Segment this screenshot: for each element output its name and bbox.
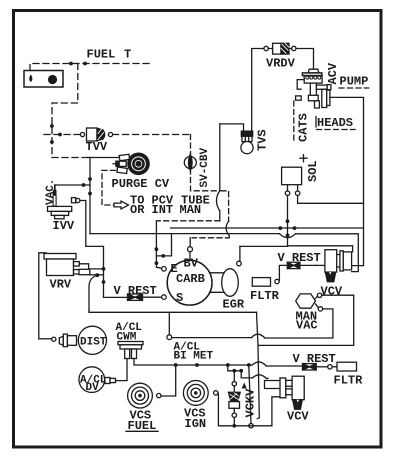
label VCKV vertical: [243, 388, 257, 418]
svg-text:CATS: CATS: [297, 113, 311, 142]
wire line A side branch down to bottom bus: [249, 365, 251, 424]
wire VCS IGN to bottom bus: [218, 393, 280, 428]
valve TVV: [44, 128, 191, 141]
svg-text:S: S: [176, 291, 183, 305]
svg-text:IVV: IVV: [53, 219, 75, 233]
solenoid SOL: [282, 155, 307, 196]
label IVV: [53, 219, 75, 233]
svg-text:OR: OR: [130, 203, 145, 217]
label A/CL CWM: [116, 322, 143, 344]
svg-text:FUEL: FUEL: [87, 48, 116, 62]
wire fuel tank dashed top run: [30, 62, 150, 71]
manifold vacuum source MAN VAC: [296, 293, 323, 311]
cold weather modulator A/CL CWM: [118, 342, 143, 359]
svg-text:ACV: ACV: [326, 62, 340, 84]
wire long manifold line y312: [89, 311, 257, 313]
wire VRDV right to ACV: [296, 49, 314, 70]
wire vertical manifold branch x90: [88, 158, 92, 234]
wire bus2 y234: [90, 234, 358, 272]
label HEADS with dashed underline: [316, 116, 355, 130]
label VRV: [50, 278, 72, 292]
wire E-port branch x156: [155, 221, 172, 268]
label SOL vertical: [306, 160, 320, 182]
svg-text:CARB: CARB: [176, 272, 205, 286]
svg-text:INT: INT: [152, 203, 174, 217]
restrictor V REST left: [128, 294, 143, 300]
wire S-port run with left V REST: [104, 296, 162, 298]
wire dashed purge to PCV note: [102, 170, 129, 209]
svg-text:T: T: [124, 48, 131, 62]
svg-text:BV: BV: [184, 257, 199, 271]
svg-text:EGR: EGR: [223, 298, 245, 312]
label A/CL DV: [80, 375, 107, 395]
wire IVV stem to branch: [55, 183, 90, 192]
label MAN VAC: [296, 310, 318, 333]
filter FLTR bottom: [337, 362, 357, 371]
svg-text:TVV: TVV: [86, 140, 108, 154]
wire V1 long vertical: [257, 312, 260, 418]
svg-text:TVS: TVS: [256, 129, 270, 151]
solenoid vent valve SV-CBV symbol: [184, 154, 196, 171]
svg-text:VRDV: VRDV: [266, 57, 296, 71]
restrictor V REST bottom: [303, 364, 338, 370]
svg-text:PUMP: PUMP: [340, 75, 369, 89]
vacuum restrictor delay valve VRDV: [268, 43, 296, 54]
purge control valve PURGE CV: [113, 153, 150, 176]
EGR valve: [210, 246, 242, 296]
label VAC. vertical: [45, 179, 57, 205]
wire VCS FUEL to line A: [161, 365, 176, 396]
wire IVV nipple down to carb S run: [80, 201, 106, 298]
label VCV bottom: [287, 410, 309, 424]
air control valve ACV: [296, 69, 331, 108]
solenoid vent valve VCS FUEL: [128, 383, 161, 408]
valve IVV: [48, 185, 80, 219]
vacuum control valve VCV bottom: [265, 376, 305, 409]
fuel tank: [24, 71, 63, 88]
check valve VCKV: [228, 365, 247, 426]
label V REST bottom: [293, 352, 336, 366]
svg-text:BI MET: BI MET: [174, 351, 214, 363]
wire VRV nipples to branch: [79, 264, 103, 311]
wire BI MET circle and line to MAN VAC: [167, 309, 333, 340]
label DIST: [80, 337, 107, 349]
wire SOL left down to EGR line: [240, 195, 353, 251]
label VCS FUEL: [126, 409, 158, 434]
wire VRDV left leg: [252, 46, 269, 131]
carburetor CARB: [162, 247, 212, 305]
wire TVS drop line: [158, 124, 220, 221]
wire dashed from tank junction down to TVV line: [50, 64, 78, 158]
svg-text:V REST: V REST: [114, 284, 157, 298]
vacuum control valve VCV mid: [316, 250, 351, 282]
svg-text:VRV: VRV: [50, 278, 72, 292]
thermal vacuum switch TVS: [220, 124, 253, 154]
labels CARB E BV S: [171, 257, 205, 306]
label VRDV: [266, 57, 296, 71]
wire DIST supply: [39, 337, 56, 341]
svg-text:VCV: VCV: [321, 285, 343, 299]
label V REST left: [114, 284, 157, 298]
label CATS vertical with dashed line: [294, 101, 311, 143]
label TVV: [86, 140, 108, 154]
svg-text:FLTR: FLTR: [250, 289, 280, 303]
wire ACV to pump line down right side: [330, 97, 364, 265]
dashed SV-CBV branch: [190, 135, 229, 247]
label TVS vertical: [256, 129, 270, 151]
svg-text:PURGE CV: PURGE CV: [112, 177, 170, 191]
wire CWM right pin to line A: [134, 359, 303, 367]
note TO PCV TUBE OR INT MAN: [130, 194, 210, 217]
svg-text:MAN: MAN: [180, 203, 202, 217]
air cleaner delay valve A/CL DV: [79, 359, 127, 393]
svg-text:VCV: VCV: [287, 410, 309, 424]
distributor DIST: [59, 326, 106, 354]
wire bus1 y228: [171, 226, 364, 230]
wire line B VCKV to VCV bottom: [241, 371, 268, 379]
svg-text:DV: DV: [86, 382, 100, 394]
label V REST mid: [278, 251, 321, 265]
label SV-CBV vertical: [199, 147, 211, 187]
label ACV vertical: [326, 62, 340, 84]
vacuum reducer valve VRV: [39, 253, 90, 339]
svg-text:V REST: V REST: [293, 352, 336, 366]
restrictor V REST mid: [275, 262, 316, 283]
svg-text:DIST: DIST: [80, 337, 107, 349]
svg-text:HEADS: HEADS: [317, 116, 353, 130]
solenoid vent valve VCS IGN: [183, 381, 218, 406]
label PURGE CV: [112, 177, 170, 191]
label FLTR mid: [250, 289, 280, 303]
wire MAN VAC top circle to line2: [258, 295, 353, 345]
wire SOL right to pump line: [298, 195, 364, 203]
label FLTR bottom: [334, 374, 364, 388]
label EGR: [223, 298, 245, 312]
label A/CL BI MET: [174, 342, 214, 363]
svg-text:FLTR: FLTR: [334, 374, 364, 388]
svg-text:V REST: V REST: [278, 251, 321, 265]
svg-text:VAC: VAC: [296, 319, 318, 333]
filter FLTR mid: [252, 278, 270, 287]
label FUEL T: [87, 48, 132, 62]
svg-text:IGN: IGN: [185, 417, 207, 431]
svg-text:SV-CBV: SV-CBV: [199, 147, 211, 187]
label VCS IGN: [184, 407, 206, 432]
svg-text:SOL: SOL: [306, 160, 320, 182]
wire purge supply line: [52, 157, 120, 159]
label VCV mid: [321, 285, 343, 299]
label PUMP with dashed underline: [339, 75, 369, 89]
